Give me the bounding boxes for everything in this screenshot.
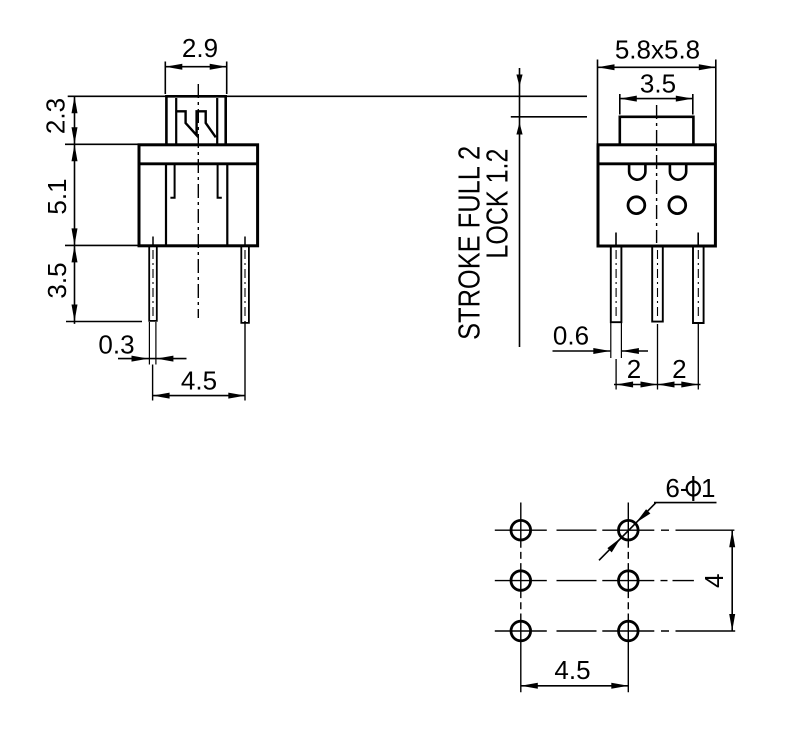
footprint hole row 1 left circle — [511, 520, 531, 540]
arrow up at lock line — [516, 122, 522, 134]
arrow right-pointing at 0.3 — [132, 356, 149, 362]
footprint hole row 3 right circle — [619, 621, 639, 641]
arrow right at 3.5 top — [676, 96, 693, 102]
extension lines for 2.9 — [165, 62, 226, 95]
extension lines for 0.3 (pin walls extended) — [149, 322, 156, 365]
left vertical dimension line — [74, 96, 76, 324]
side view pin 3 — [693, 246, 704, 323]
arrow up at footprint 4 — [729, 530, 735, 547]
arrow down at 3.5 bottom — [72, 305, 78, 322]
svg-text:3.5: 3.5 — [42, 262, 72, 298]
side view button outline — [620, 117, 694, 145]
lock position reference line — [511, 116, 587, 118]
footprint row 3 center line — [495, 630, 735, 632]
front view flange line — [139, 162, 258, 165]
arrow right at second 2 — [681, 382, 698, 388]
extension line body top — [65, 143, 138, 145]
dimension line 2-2 — [614, 384, 701, 386]
dimension line 4.5 footprint — [521, 685, 629, 687]
dimension line 0.3 — [118, 358, 187, 360]
arrow up at 3.5 top — [72, 245, 78, 262]
arrow left at second 2 — [658, 382, 675, 388]
side view flange line — [598, 162, 715, 165]
arrow up at 5.1 top — [72, 144, 78, 161]
footprint column 2 center line — [627, 503, 629, 693]
arrow left at 4.5 — [153, 393, 170, 399]
arrow down at 5.1 bottom — [72, 228, 78, 245]
side view pin 1 — [611, 246, 622, 322]
extension line top of plunger (long reference line) — [68, 95, 587, 97]
side view bottom tick marks — [616, 233, 698, 245]
arrow left at first 2 — [616, 382, 633, 388]
svg-text:2.9: 2.9 — [182, 33, 218, 63]
dimension line 2.9 — [165, 66, 226, 68]
svg-text:3.5: 3.5 — [640, 69, 676, 99]
svg-text:4.5: 4.5 — [181, 366, 217, 396]
stroke dimension vertical line — [519, 68, 521, 347]
arrow right at first 2 — [641, 382, 658, 388]
arrow left at 3.5 top — [620, 96, 637, 102]
side view right hole circle — [669, 197, 686, 214]
svg-text:4: 4 — [699, 574, 729, 588]
arrow left-pointing at 0.3 — [156, 356, 173, 362]
dimension line 3.5 top — [620, 98, 693, 100]
front view left pin — [149, 246, 157, 321]
dimension line 4.5 — [153, 395, 246, 397]
arrow right of 2.9 — [210, 64, 227, 70]
arrow right at footprint 4.5 — [611, 683, 628, 689]
side view left hole circle — [628, 197, 645, 214]
extension line body bottom — [65, 244, 138, 246]
arrow down at footprint 4 — [729, 614, 735, 631]
arrow down at 2.3 bottom — [72, 127, 78, 144]
extension line 4.5 left — [152, 365, 154, 401]
front view vertical center line — [197, 84, 199, 318]
dimension line 5.8x5.8 — [598, 66, 716, 68]
side view pin center dash lines — [616, 250, 698, 318]
svg-text:2: 2 — [672, 354, 686, 384]
footprint hole row 3 left circle — [511, 621, 531, 641]
extension lines for 0.6 (pin1 walls extended) — [611, 323, 622, 358]
extension line pin end — [66, 321, 142, 323]
footprint row 1 center line — [495, 529, 735, 531]
extension lines for 5.8x5.8 — [598, 60, 716, 145]
arrow left at footprint 4.5 — [521, 683, 538, 689]
svg-text:2: 2 — [627, 354, 641, 384]
front view body inner walls — [166, 165, 227, 246]
side view left terminal slot arc — [629, 164, 645, 179]
arrow right at 5.8 — [699, 64, 716, 70]
front view plunger inner walls — [176, 98, 217, 145]
front view body outline — [139, 145, 258, 246]
extension line 4.5 right — [244, 321, 246, 401]
side view pin 2 — [652, 246, 663, 322]
svg-text:6-: 6- — [665, 473, 688, 503]
side view vertical center line — [656, 105, 658, 243]
dimension line 4 footprint — [731, 530, 733, 631]
arrow left at 5.8 — [598, 64, 615, 70]
side view body outline — [598, 145, 715, 246]
footprint hole row 2 right circle — [619, 571, 639, 591]
footprint column 1 center line — [520, 503, 522, 693]
dimension line 0.6 — [553, 350, 649, 352]
arrow left of 2.9 — [165, 64, 182, 70]
front view inner skirt hooks — [170, 165, 221, 198]
arrow down at stroke top line — [516, 75, 522, 87]
arrow right-pointing at 0.6 — [593, 348, 610, 354]
front view plunger notch detail — [176, 111, 216, 137]
front view right pin — [241, 246, 249, 323]
arrow right at 4.5 — [228, 393, 245, 399]
svg-text:0.3: 0.3 — [98, 330, 134, 360]
extension lines for 3.5 top — [620, 94, 693, 115]
svg-text:1: 1 — [701, 473, 715, 503]
side view right terminal slot arc — [670, 164, 686, 179]
extension lines for 2-2 spacing — [616, 324, 698, 390]
svg-text:5.8x5.8: 5.8x5.8 — [615, 35, 700, 65]
leader arrow upper — [636, 509, 651, 523]
leader arrow lower — [607, 538, 621, 553]
svg-text:LOCK 1.2: LOCK 1.2 — [481, 149, 515, 259]
svg-text:0.6: 0.6 — [553, 321, 589, 351]
svg-text:2.3: 2.3 — [41, 98, 71, 134]
front view pin tick marks — [153, 237, 245, 245]
front view plunger outline — [166, 96, 225, 145]
footprint hole row 1 right circle — [619, 520, 639, 540]
arrow up at 2.3 top — [72, 96, 78, 113]
svg-text:4.5: 4.5 — [554, 655, 590, 685]
arrow left-pointing at 0.6 — [622, 348, 639, 354]
svg-text:5.1: 5.1 — [42, 178, 72, 214]
footprint hole row 2 left circle — [511, 571, 531, 591]
footprint row 2 center line — [495, 580, 694, 582]
front view pin center lines — [153, 250, 245, 319]
leader line for 6-phi1 — [599, 503, 717, 561]
